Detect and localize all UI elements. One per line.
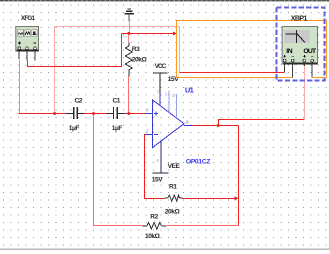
wire: XFG1 + down to bottom rail (salmon) xyxy=(19,60,21,114)
wire: inverting input to R1 xyxy=(145,135,165,199)
selection box around XBP1 xyxy=(277,8,325,81)
wire: bottom rail left segment to C2 xyxy=(19,113,67,115)
svg-text:10kΩ: 10kΩ xyxy=(145,233,161,240)
svg-text:VCC: VCC xyxy=(155,63,167,70)
svg-text:C1: C1 xyxy=(113,98,121,105)
wire: OUT- stub xyxy=(311,62,313,77)
svg-text:IN: IN xyxy=(286,48,293,55)
svg-text:R3: R3 xyxy=(132,46,140,53)
op-amp top pins xyxy=(169,91,177,119)
svg-text:OP01CZ: OP01CZ xyxy=(186,158,211,165)
svg-text:1µF: 1µF xyxy=(112,125,123,132)
wire: COM to ground net xyxy=(28,34,122,67)
resistor R3 top lead wire xyxy=(128,34,130,43)
wire: op-amp output xyxy=(193,125,239,127)
svg-text:20kΩ: 20kΩ xyxy=(165,209,181,216)
svg-text:1µF: 1µF xyxy=(69,125,80,132)
arrow: R1 wire end xyxy=(235,196,239,200)
junction: ground node dot xyxy=(127,32,130,35)
VEE symbol xyxy=(152,142,168,174)
svg-text:U1: U1 xyxy=(185,85,194,94)
op-amp U1 xyxy=(145,100,193,148)
orange net: right vertical xyxy=(326,21,328,78)
junction: output node dot xyxy=(217,124,220,127)
wire: R2 right to output vertical xyxy=(166,225,239,227)
node: junction input tap xyxy=(53,112,56,115)
wire: between C2 and C1 xyxy=(84,113,107,115)
svg-text:15V: 15V xyxy=(152,176,163,183)
pin numbers xyxy=(146,90,175,164)
svg-text:XBP1: XBP1 xyxy=(291,16,308,23)
XBP1 bode plotter xyxy=(281,27,317,65)
top window edge xyxy=(0,0,330,1)
wire: ground stem xyxy=(128,15,130,22)
wire: XFG1 + terminal stub (black) xyxy=(18,50,20,60)
resistor R3 xyxy=(125,43,132,77)
wire: R1 right to output vertical xyxy=(183,198,236,200)
svg-text:XFG1: XFG1 xyxy=(21,15,36,22)
ground symbol xyxy=(125,8,135,14)
wire: C2/C1 node down to R2 xyxy=(94,114,143,226)
resistor R2 xyxy=(142,223,166,229)
capacitor C2 xyxy=(67,107,84,119)
VCC symbol xyxy=(153,72,168,106)
svg-text:R2: R2 xyxy=(150,213,158,220)
wire: input vertical down to IN+ level (pink) xyxy=(179,27,181,73)
wire: IN+ stub xyxy=(284,62,286,72)
orange net: to OUT- xyxy=(313,77,327,79)
wire: OUT+ stub xyxy=(303,62,305,66)
right page border line xyxy=(329,0,330,250)
orange net: vertical near op-amp xyxy=(176,21,178,78)
svg-text:OUT: OUT xyxy=(303,48,317,55)
XFG1 function generator xyxy=(15,26,38,51)
wire: IN- stub xyxy=(292,62,294,77)
wire: input tap vertical up (pink) xyxy=(54,27,56,114)
wire: input top horizontal (pink) xyxy=(55,26,180,28)
arrow: wire end into orange net xyxy=(173,31,177,35)
junction: C2/C1 node dot xyxy=(92,112,95,115)
wire: output up branch xyxy=(219,120,305,126)
junction: + input node dot xyxy=(127,112,130,115)
svg-text:R1: R1 xyxy=(169,183,177,190)
wire: ground horizontal xyxy=(122,33,175,35)
wire: XFG1 - stub (black, dangling) xyxy=(34,50,36,61)
svg-text:20kΩ: 20kΩ xyxy=(132,57,148,64)
orange net: to IN- xyxy=(177,77,293,79)
bottom page border line xyxy=(0,249,330,250)
wire: to bode plotter IN+ (red) xyxy=(180,72,285,74)
wire: R3 bottom to + node xyxy=(128,77,130,114)
wire: C1 to op-amp + node xyxy=(125,113,146,115)
capacitor C1 xyxy=(107,107,125,119)
wire: XFG1 COM stub (black) xyxy=(26,50,28,61)
svg-text:C2: C2 xyxy=(75,98,83,105)
svg-text:VEE: VEE xyxy=(168,163,181,170)
wire: up to bode OUT+ (pink) xyxy=(304,67,306,120)
wire: output down to R2 xyxy=(238,126,240,226)
resistor R1 xyxy=(165,195,183,201)
orange net: top horizontal xyxy=(177,20,327,22)
